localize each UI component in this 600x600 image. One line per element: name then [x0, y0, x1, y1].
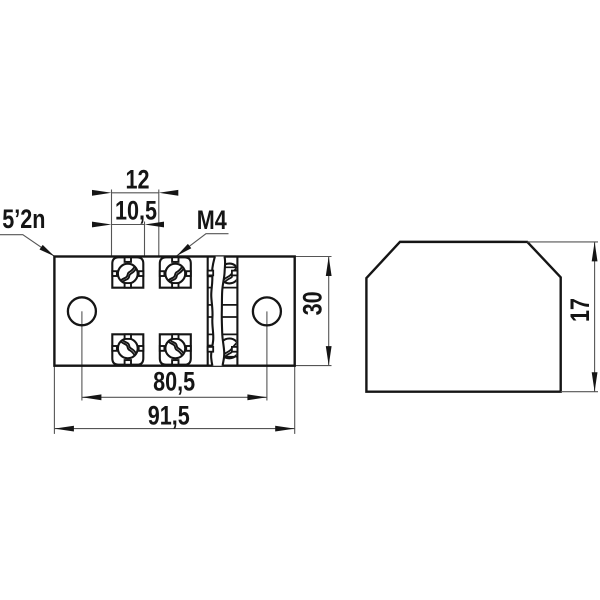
break band: partial screw bottom [219, 339, 239, 359]
label M4: leader arrowhead [177, 244, 192, 256]
label 5'2n: leader line [0, 235, 54, 257]
break band: tab right top [232, 271, 238, 276]
dimension 12: dimension line [112, 192, 159, 194]
dimension 30: top arrow [326, 257, 332, 277]
dimension 30: extension line top [295, 256, 332, 258]
svg-text:5’2n: 5’2n [2, 205, 45, 235]
dimension 80,5: extension line left (from left hole center) [81, 311, 83, 400]
dimension 80,5: right arrow [247, 394, 267, 400]
dimension 30: dimension line [328, 257, 330, 366]
terminal screw 4 (bottom-right) [160, 334, 191, 365]
dimension 91,5: dimension line [54, 428, 294, 430]
break band: partial terminal edges [208, 257, 238, 366]
dimension 80,5: extension line right (from right hole center) [266, 311, 268, 400]
terminal screw 3 (bottom-left) [112, 334, 143, 365]
dimension 91,5: left arrow [54, 426, 74, 432]
svg-text:91,5: 91,5 [148, 401, 190, 431]
break band: wavy break line right [222, 257, 225, 366]
mounting hole right [253, 297, 281, 325]
terminal screw 2 (top-right) [160, 257, 191, 288]
label 5'2n: leader arrowhead [40, 245, 55, 256]
break band: inner horizontal lines right side [220, 267, 237, 356]
dimension 12: extension line right [158, 190, 160, 257]
break band: partial screw top [219, 264, 239, 284]
break band: wavy break line left [211, 257, 215, 366]
dimension 10,5: extension line right [144, 222, 146, 257]
mounting hole left [68, 297, 96, 325]
break band: tab left top [208, 271, 214, 276]
break band: white break ribbon [211, 257, 225, 366]
dimension 91,5: extension line right [294, 366, 296, 434]
break band: tab left bottom [208, 347, 214, 352]
break band: tab right bottom [232, 347, 238, 352]
terminal screw 1 (top-left) [112, 257, 143, 288]
dimension 12: extension line left [111, 190, 113, 257]
dimension 80,5: left arrow [82, 394, 102, 400]
svg-text:12: 12 [125, 165, 149, 195]
dimension 10,5: right arrow [145, 222, 165, 228]
dimension 80,5: dimension line [82, 396, 267, 398]
dimension 17: extension line top [527, 241, 598, 243]
dimension 91,5: extension line left [53, 366, 55, 434]
dimension 30: bottom arrow [326, 346, 332, 366]
dimension 10,5: dimension line [112, 224, 145, 226]
dimension 17: bottom arrow [592, 372, 598, 392]
label M4: leader line [177, 234, 229, 256]
dimension 30: extension line bottom [295, 365, 332, 367]
dimension 12: right arrow [159, 190, 179, 196]
dimension 17: dimension line [594, 242, 596, 392]
dimension 10,5: left arrow [92, 222, 112, 228]
front view outline [54, 257, 294, 366]
svg-text:10,5: 10,5 [115, 196, 157, 226]
dimension 12: left arrow [92, 190, 112, 196]
svg-text:17: 17 [566, 298, 596, 322]
break band: inner horizontal lines left side [208, 276, 218, 345]
svg-text:30: 30 [298, 291, 328, 315]
svg-text:80,5: 80,5 [153, 367, 195, 397]
side view outline [366, 242, 560, 392]
dimension 17: extension line bottom [561, 391, 598, 393]
dimension 17: top arrow [592, 242, 598, 262]
dimension 91,5: right arrow [275, 426, 295, 432]
svg-text:M4: M4 [197, 206, 227, 236]
